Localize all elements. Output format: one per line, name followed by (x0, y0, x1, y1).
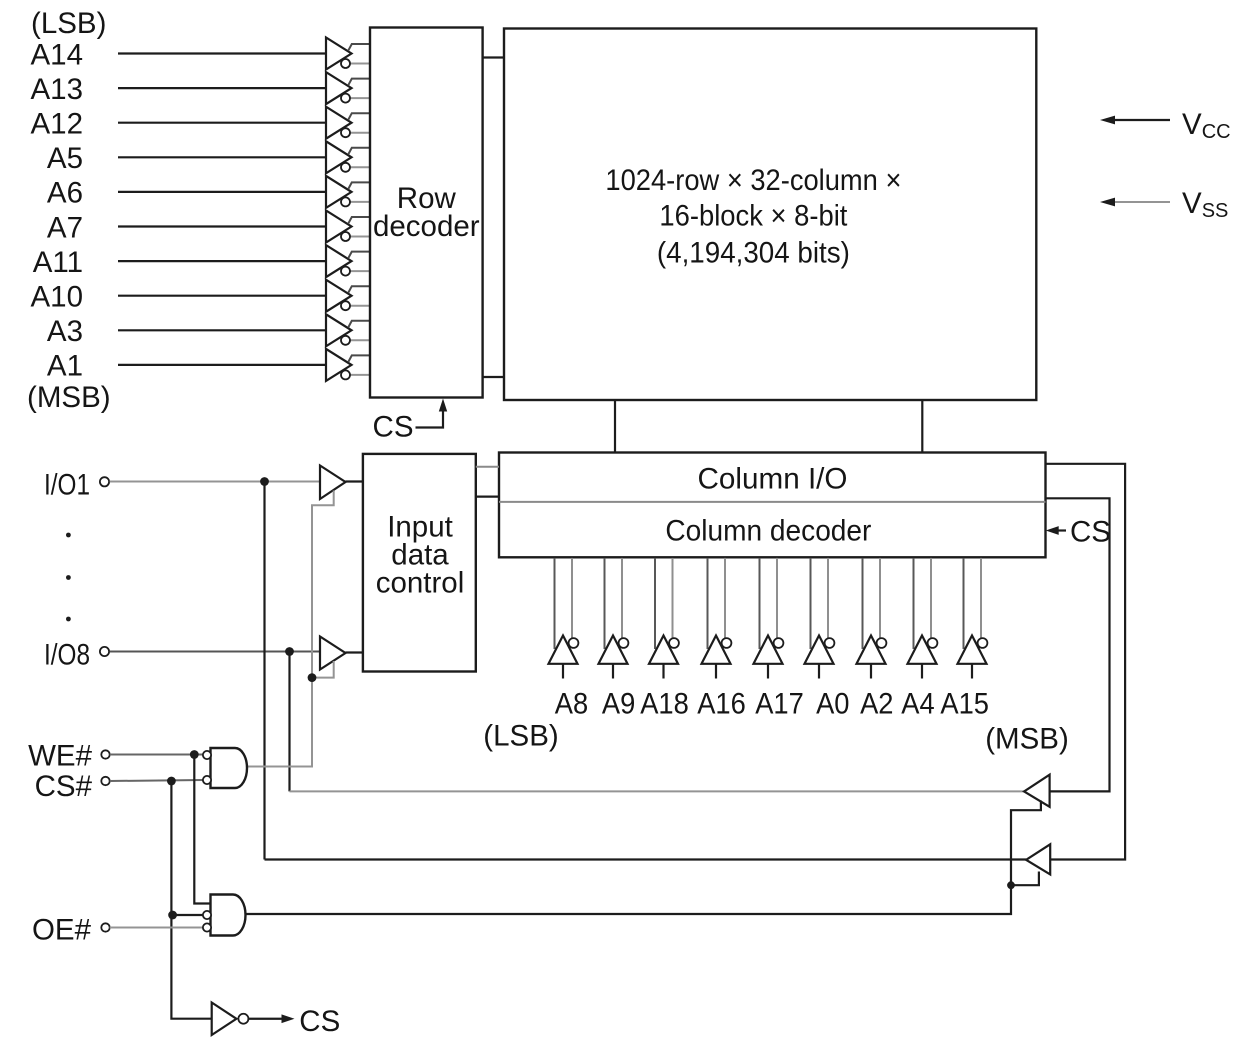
svg-text:A1: A1 (47, 350, 83, 383)
svg-text:A3: A3 (47, 315, 83, 348)
svg-text:CS: CS (299, 1005, 340, 1038)
svg-text:(4,194,304 bits): (4,194,304 bits) (657, 237, 850, 270)
svg-text:WE#: WE# (28, 739, 93, 772)
svg-text:A8: A8 (555, 687, 588, 720)
svg-text:CS: CS (373, 411, 414, 444)
svg-text:A9: A9 (602, 687, 635, 720)
svg-text:decoder: decoder (373, 210, 480, 243)
svg-text:Column decoder: Column decoder (665, 514, 871, 547)
svg-text:A2: A2 (860, 687, 893, 720)
svg-text:A11: A11 (33, 246, 83, 279)
svg-text:(MSB): (MSB) (27, 381, 111, 414)
svg-text:CS#: CS# (35, 770, 93, 803)
svg-text:A13: A13 (31, 73, 84, 106)
svg-text:1024-row × 32-column ×: 1024-row × 32-column × (605, 164, 901, 197)
svg-text:I/O8: I/O8 (44, 638, 90, 671)
svg-text:A4: A4 (901, 687, 934, 720)
svg-text:A7: A7 (47, 211, 83, 244)
svg-text:OE#: OE# (32, 913, 92, 946)
svg-text:A10: A10 (31, 281, 84, 314)
svg-text:(LSB): (LSB) (483, 720, 558, 753)
svg-text:(MSB): (MSB) (985, 723, 1069, 756)
svg-text:CS: CS (1070, 516, 1111, 549)
svg-text:A16: A16 (697, 687, 746, 720)
svg-text:(LSB): (LSB) (31, 7, 106, 40)
svg-text:A6: A6 (47, 177, 83, 210)
svg-text:A0: A0 (816, 687, 849, 720)
svg-text:I/O1: I/O1 (44, 468, 90, 501)
svg-text:A12: A12 (31, 108, 84, 141)
svg-text:A5: A5 (47, 142, 83, 175)
svg-text:control: control (376, 567, 465, 600)
svg-text:Column I/O: Column I/O (698, 462, 848, 495)
svg-text:A17: A17 (755, 687, 804, 720)
svg-text:A14: A14 (31, 38, 84, 71)
svg-text:16-block × 8-bit: 16-block × 8-bit (659, 200, 847, 233)
svg-text:A15: A15 (940, 687, 989, 720)
svg-text:A18: A18 (640, 687, 689, 720)
